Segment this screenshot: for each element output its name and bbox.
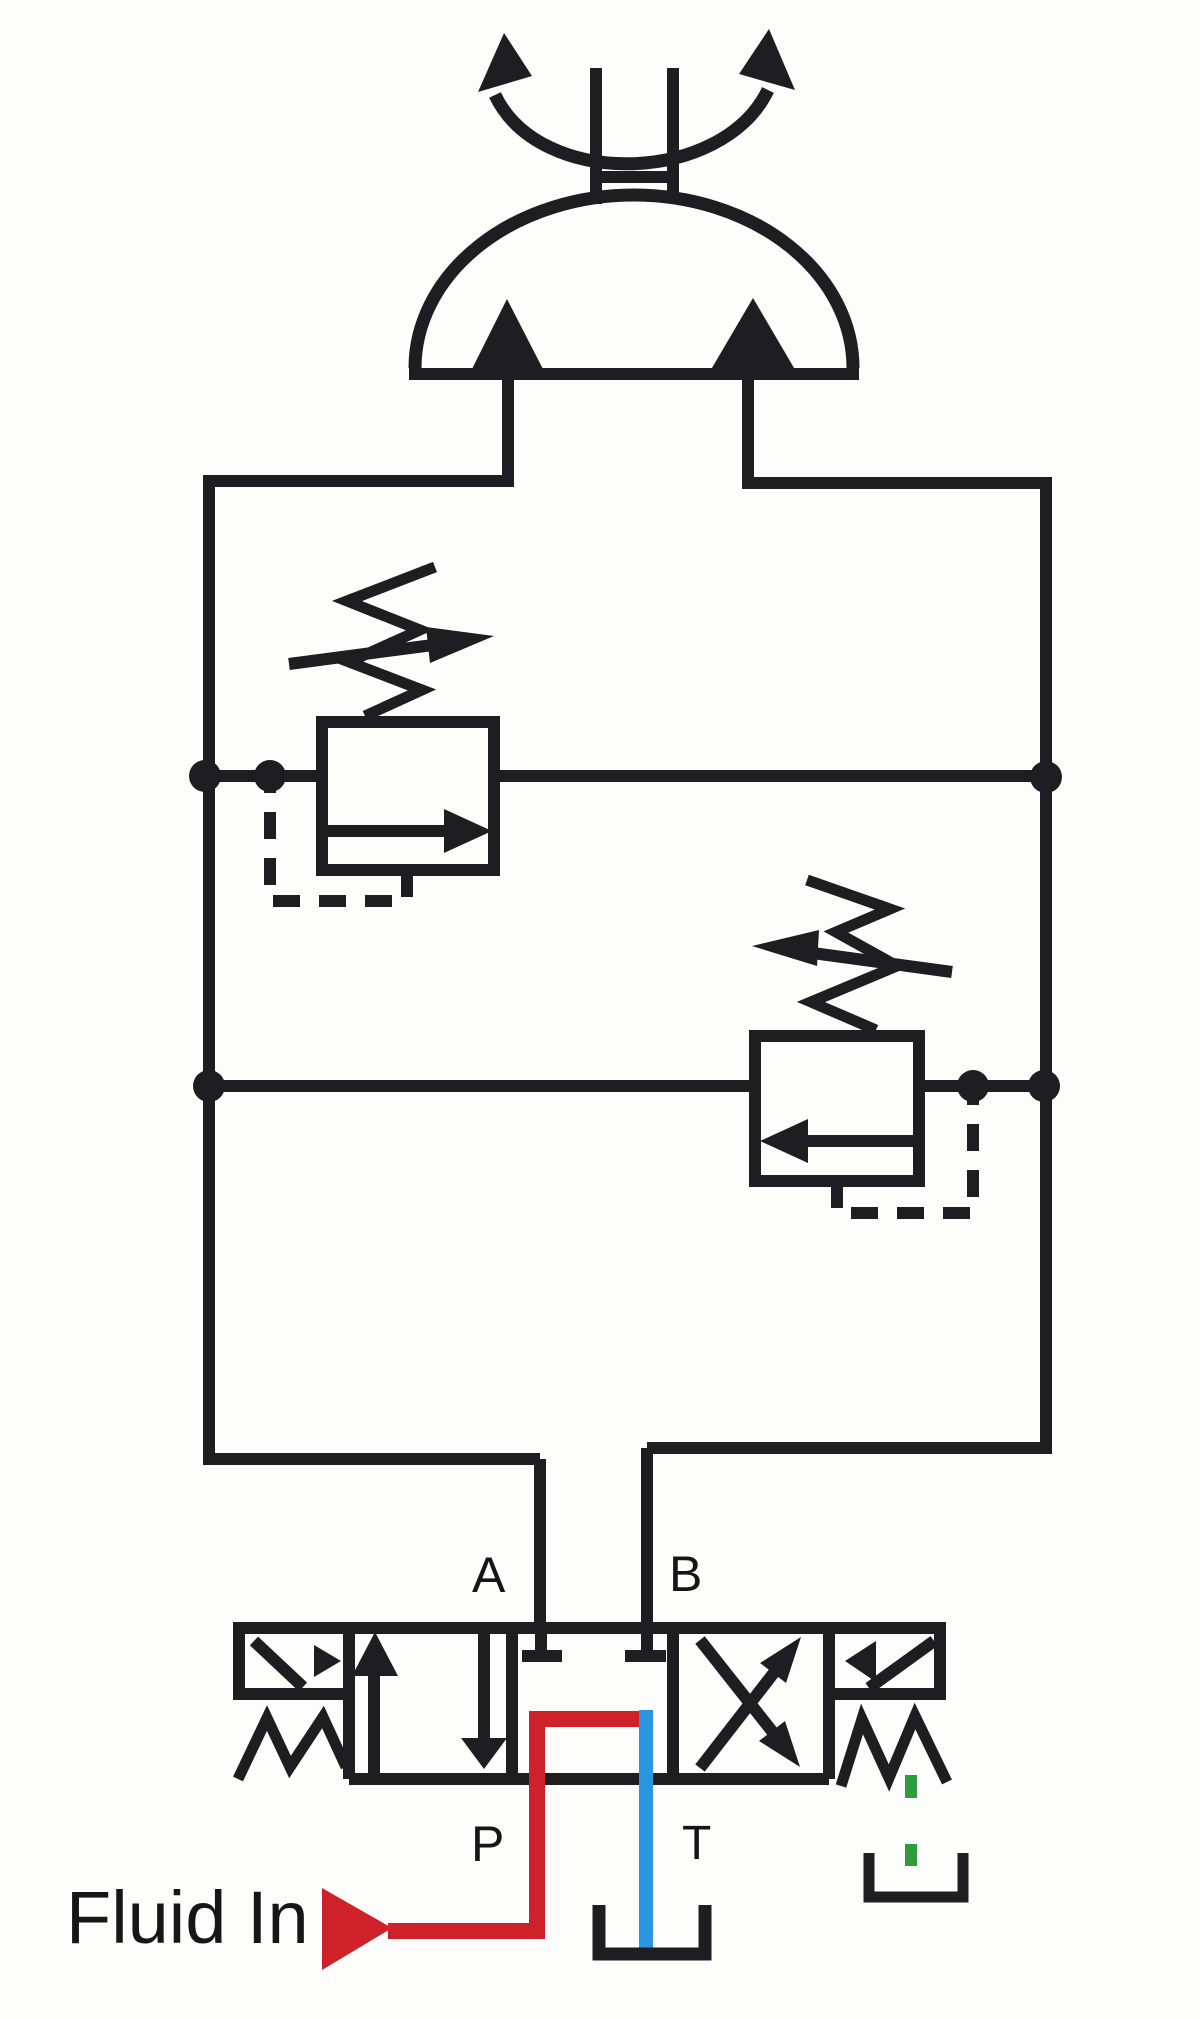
RV1 spring: [347, 567, 435, 716]
solenoid S2 box (right): [829, 1628, 946, 1694]
DV1 envelope border mid-right: [667, 1628, 679, 1779]
relief valve RV2 body: [755, 1036, 919, 1181]
wire: top-left horizontal from rail to motor left port: [203, 475, 508, 487]
drain tank symbol: [869, 1853, 963, 1897]
wire: top-right horizontal from motor right port to rail: [748, 477, 1052, 489]
DV1 envelope border mid-left: [506, 1628, 518, 1779]
solenoid S1 triangle: [314, 1645, 341, 1677]
actuator base line: [409, 368, 859, 380]
solenoid S2 triangle: [845, 1641, 876, 1682]
RV1 internal flow arrow: [325, 825, 446, 837]
RV2 adjustment arrow: [798, 951, 952, 972]
junction dot: RV2 outlet at right rail: [1028, 1070, 1060, 1102]
DV1 return spring left: [238, 1717, 346, 1779]
wire: bottom-left horizontal from rail to port A line: [203, 1453, 540, 1465]
RV1 pilot line (dashed): [270, 788, 407, 901]
DV1 position 3 crossed arrow 1: [700, 1670, 776, 1768]
RV2 internal flow arrow: [806, 1135, 914, 1147]
wire: line from RV1 to right rail: [494, 770, 1052, 782]
shaft crossbar: [590, 171, 679, 183]
wire: line from left rail into RV2: [203, 1080, 755, 1092]
solenoid S1 slash: [254, 1641, 303, 1687]
DV1 envelope border left: [343, 1628, 355, 1779]
wire: right vertical rail: [1040, 483, 1052, 1448]
rotation arrowhead left: [478, 33, 532, 92]
actuator shaft line right: [667, 68, 679, 200]
directional control valve DV1: top edge: [233, 1622, 946, 1634]
wire: line from left rail into RV1: [203, 770, 322, 782]
wire: line from RV2 to right rail: [919, 1080, 1052, 1092]
RV2 spring: [807, 880, 897, 1030]
junction dot: RV2 pilot tap: [957, 1070, 989, 1102]
rotation arrowhead right: [739, 29, 795, 90]
DV1 position 1 down arrow: [478, 1628, 490, 1742]
tank symbol under T: [599, 1905, 705, 1954]
wire: motor right port drop leg: [742, 372, 754, 489]
wire: bottom-right horizontal from port B line to rail: [647, 1442, 1052, 1454]
RV1 adjustment arrow: [289, 643, 448, 664]
solenoid S2 slash: [869, 1641, 934, 1688]
junction dot: left rail / RV2 line: [193, 1070, 225, 1102]
DV1 envelope bottom edge: [349, 1773, 829, 1785]
wire: left vertical rail: [203, 481, 215, 1459]
actuator flow triangle right: [709, 298, 797, 373]
green drain line (dashed): [905, 1775, 917, 1866]
svg-text:B: B: [669, 1546, 702, 1602]
wire: motor left port drop leg: [502, 372, 514, 487]
svg-text:Fluid In: Fluid In: [66, 1876, 309, 1959]
svg-text:A: A: [472, 1547, 506, 1603]
DV1 envelope border right: [823, 1628, 835, 1779]
DV1 return spring right: [841, 1716, 947, 1786]
bidirectional rotation arc: [495, 90, 768, 164]
svg-text:T: T: [682, 1817, 711, 1870]
actuator flow triangle left: [470, 299, 545, 373]
junction dot: RV1 outlet at right rail: [1030, 761, 1062, 793]
DV1 center position blocked port B stub: [625, 1628, 666, 1656]
junction dot: left rail / RV1 line: [189, 760, 221, 792]
wire: port A vertical line: [534, 1459, 546, 1628]
wire: port B vertical line: [641, 1448, 653, 1628]
relief valve RV1 body: [322, 722, 494, 870]
fluid-in red arrow funnel: [322, 1888, 392, 1970]
RV2 pilot line (dashed): [837, 1098, 973, 1213]
DV1 position 3 crossed arrow 2: [700, 1640, 775, 1735]
junction dot: RV1 pilot tap: [254, 760, 286, 792]
svg-text:P: P: [471, 1816, 504, 1872]
DV1 center position blocked port A stub: [522, 1628, 562, 1656]
actuator shaft line left: [590, 68, 602, 204]
hydraulic semi-rotary actuator M1: dome: [415, 195, 853, 368]
blue tank line T path: [639, 1710, 653, 1952]
solenoid S1 box (left): [233, 1628, 349, 1694]
DV1 position 1 up arrow: [368, 1658, 380, 1775]
red pressure line P path: [388, 1719, 641, 1931]
